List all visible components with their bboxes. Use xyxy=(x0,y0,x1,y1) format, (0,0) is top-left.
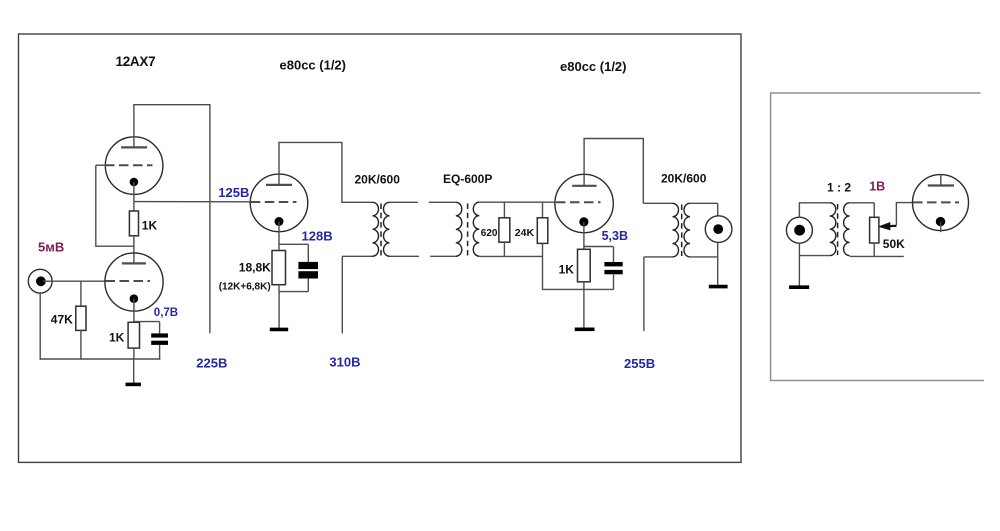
wire V3 anode up xyxy=(584,139,643,204)
svg-text:128В: 128В xyxy=(302,229,333,244)
resistor R 1K cathode V1b xyxy=(128,322,139,359)
wire V2 cathode down xyxy=(278,222,280,251)
input jack J3 xyxy=(786,217,812,243)
wire input jack to grid V1b xyxy=(43,280,106,282)
triode V1b lower (12AX7) xyxy=(105,253,163,311)
capacitor C3 bypass xyxy=(584,247,623,290)
svg-text:1В: 1В xyxy=(869,180,885,194)
ground G3 xyxy=(575,289,595,329)
triode V1a upper (12AX7) xyxy=(105,137,163,195)
transformer EQ secondary xyxy=(473,202,555,256)
svg-text:18,8K: 18,8K xyxy=(239,260,271,274)
resistor R 18,8K xyxy=(272,251,286,292)
svg-text:1 : 2: 1 : 2 xyxy=(827,181,851,195)
transformer T4 secondary xyxy=(844,203,904,257)
main enclosure box xyxy=(19,34,742,462)
ground G2 xyxy=(270,292,288,330)
wire T3 secondary top to jack xyxy=(717,203,719,216)
resistor R 24K xyxy=(537,202,548,256)
transformer T3 core xyxy=(681,205,683,257)
capacitor C2 bypass xyxy=(279,244,318,291)
svg-text:EQ-600P: EQ-600P xyxy=(443,172,492,186)
wire 24K bottom to cathode rail xyxy=(543,256,614,289)
svg-text:1K: 1K xyxy=(559,262,575,276)
svg-text:20K/600: 20K/600 xyxy=(355,173,401,187)
resistor R 47K xyxy=(76,281,86,359)
wire V2 anode up xyxy=(279,142,342,203)
resistor R 1K cathode V3 xyxy=(578,249,591,289)
svg-text:125В: 125В xyxy=(218,185,249,200)
transformer T3 secondary xyxy=(684,203,718,257)
transformer T4 core xyxy=(837,204,839,255)
svg-text:1K: 1K xyxy=(109,331,125,345)
wire jack J3 top xyxy=(799,203,829,217)
svg-text:47K: 47K xyxy=(51,312,73,326)
triode V4 xyxy=(913,174,969,232)
transformer T4 1:2 primary xyxy=(799,203,835,256)
svg-text:0,7В: 0,7В xyxy=(154,307,178,319)
svg-text:620: 620 xyxy=(481,228,498,239)
output jack J2 xyxy=(705,216,732,243)
wire V3 cathode down xyxy=(583,222,585,249)
triode V2 (e80cc) xyxy=(250,174,308,232)
wire V1a cathode to R xyxy=(133,182,135,211)
svg-text:225В: 225В xyxy=(196,356,227,371)
potentiometer R 50K xyxy=(870,203,879,257)
wire jack J3 sleeve down xyxy=(798,243,800,285)
transformer T1 secondary xyxy=(384,202,419,256)
ground G1 xyxy=(126,359,141,384)
wire B+ stub 255V xyxy=(643,257,645,331)
svg-text:e80cc (1/2): e80cc (1/2) xyxy=(280,58,347,73)
resistor R 620 xyxy=(499,202,510,256)
wire V1a anode up xyxy=(133,105,135,148)
svg-text:12AX7: 12AX7 xyxy=(116,54,156,69)
wire jack sleeve down xyxy=(39,293,41,360)
wire B+ stub 310V xyxy=(341,256,343,333)
wire anode top horizontal xyxy=(133,104,210,106)
resistor R 1K (SRPP) xyxy=(129,211,138,263)
svg-text:20K/600: 20K/600 xyxy=(661,172,707,186)
svg-text:1K: 1K xyxy=(142,219,158,233)
svg-text:e80cc (1/2): e80cc (1/2) xyxy=(560,59,627,74)
wire V1b cathode down xyxy=(133,299,135,323)
svg-text:50K: 50K xyxy=(883,237,905,251)
wire ground rail stage1 xyxy=(40,358,161,360)
svg-text:255В: 255В xyxy=(624,356,655,371)
svg-text:5мВ: 5мВ xyxy=(38,240,64,255)
wire 125V to V2 grid xyxy=(134,201,251,203)
ground G4 xyxy=(709,285,728,289)
ground G5 xyxy=(789,285,809,289)
transformer T3 20K/600 primary xyxy=(643,203,678,257)
transformer EQ core xyxy=(467,204,469,256)
triode V3 (e80cc) xyxy=(555,174,613,232)
transformer T1 20K/600 primary xyxy=(342,202,379,256)
wire V1a grid left xyxy=(96,164,106,166)
transformer EQ-600P primary xyxy=(429,202,462,256)
pot wiper arrow xyxy=(878,203,913,231)
svg-text:(12K+6,8K): (12K+6,8K) xyxy=(219,282,271,293)
svg-text:24K: 24K xyxy=(515,227,535,239)
transformer T1 core xyxy=(380,204,382,256)
capacitor C1 bypass xyxy=(134,322,168,360)
wire jack J2 bottom xyxy=(717,243,719,286)
input jack J1 xyxy=(28,269,52,293)
wire grid feedback down xyxy=(96,165,134,246)
svg-text:5,3В: 5,3В xyxy=(602,229,628,243)
right enclosure box (open right side) xyxy=(771,93,984,381)
svg-text:310В: 310В xyxy=(329,355,360,370)
wire B+ stub 225V vertical xyxy=(209,104,211,333)
